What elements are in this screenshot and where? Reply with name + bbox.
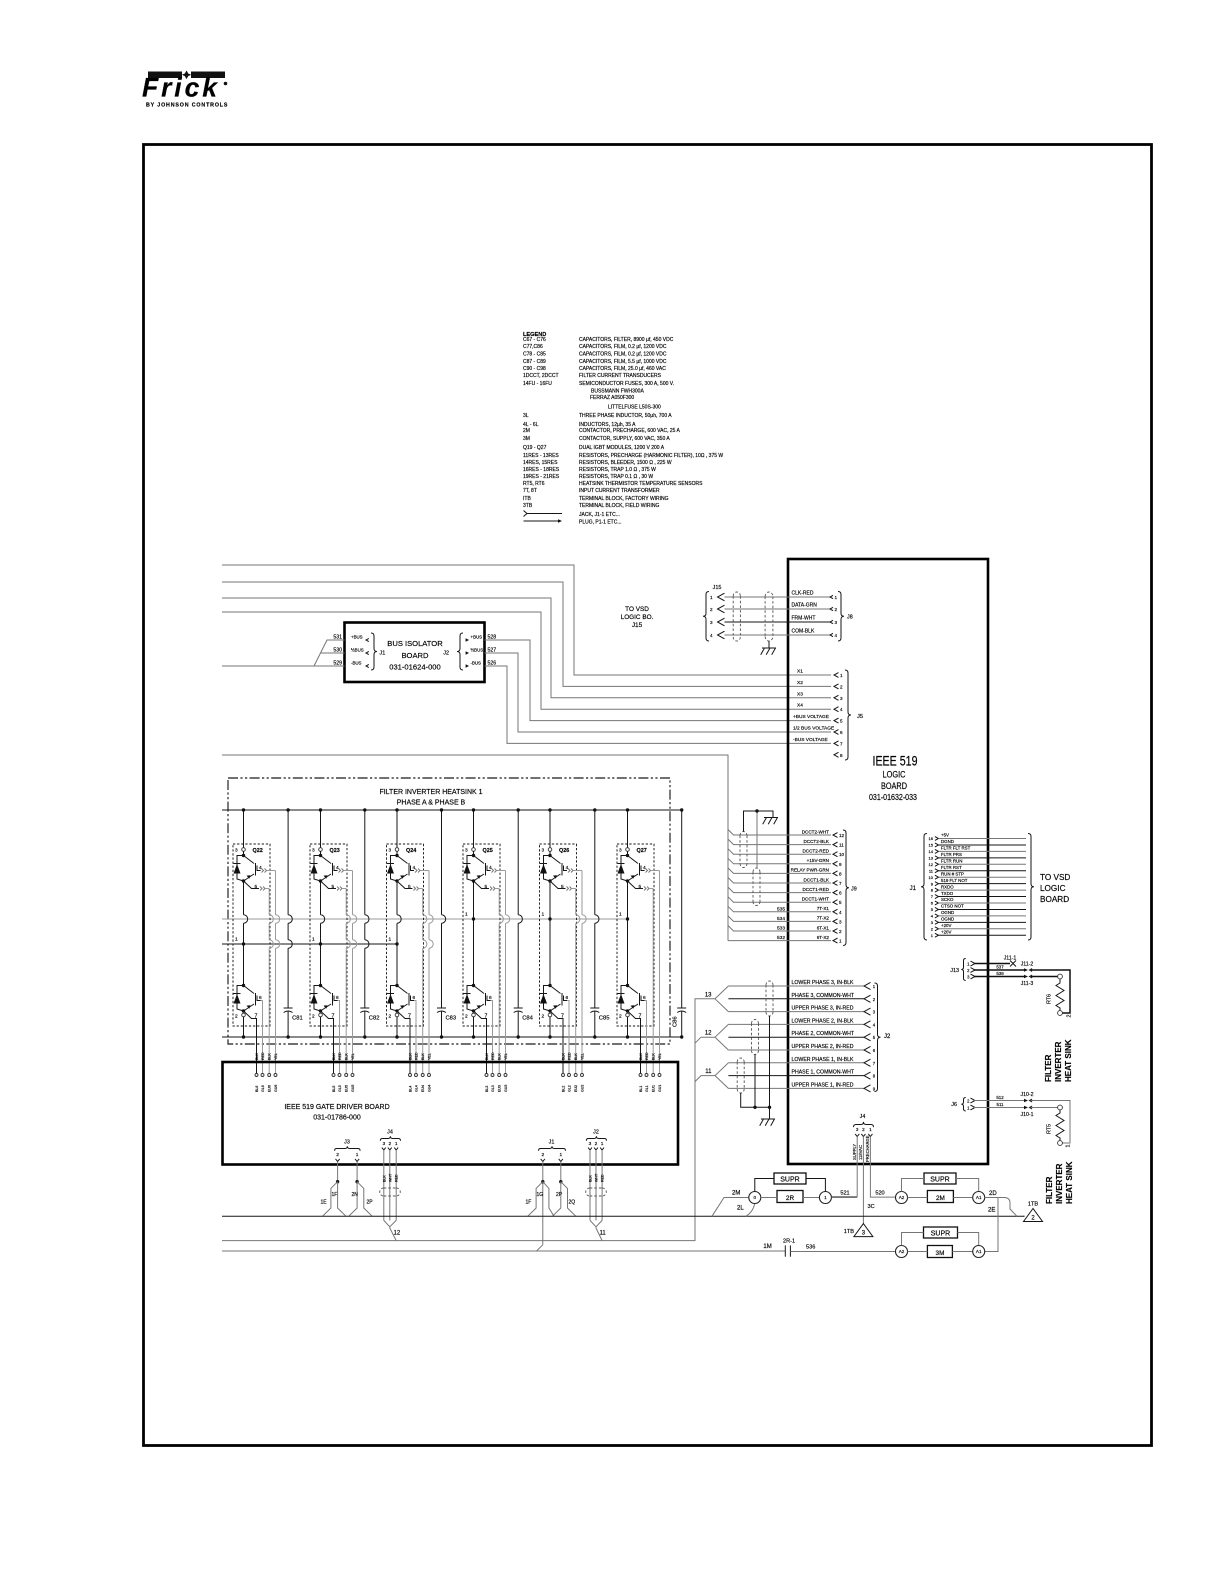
Q22 pin 6 gate wire <box>257 996 261 1001</box>
svg-text:EU1: EU1 <box>652 1085 656 1092</box>
Q25 pin 6 gate wire <box>487 996 491 1001</box>
svg-text:1F: 1F <box>332 1192 338 1198</box>
svg-text:J2: J2 <box>443 651 449 657</box>
svg-text:1: 1 <box>835 595 838 600</box>
svg-text:Q25: Q25 <box>483 848 493 854</box>
svg-text:X1: X1 <box>797 669 803 675</box>
svg-text:11RES - 13RES: 11RES - 13RES <box>523 453 559 459</box>
Q25 emitter junction upper <box>472 879 475 882</box>
Q26 emitter junction upper <box>548 879 551 882</box>
bus isolator J2 pin -BUS <box>466 664 469 667</box>
svg-text:BL1: BL1 <box>639 1086 643 1092</box>
legend jack symbol <box>524 511 563 517</box>
svg-text:7: 7 <box>839 881 842 886</box>
svg-text:531: 531 <box>333 635 342 641</box>
svg-text:GU1: GU1 <box>658 1085 662 1092</box>
svg-text:1G: 1G <box>537 1192 544 1198</box>
wire J9 pin 8 RELAY PWR-GRN <box>728 868 831 874</box>
cable J2 wires drop <box>589 1150 591 1220</box>
svg-text:FILTER: FILTER <box>1044 1054 1053 1082</box>
svg-text:1: 1 <box>619 912 622 918</box>
svg-text:+5V: +5V <box>941 833 949 838</box>
svg-text:2: 2 <box>835 607 838 612</box>
svg-text:C87 - C89: C87 - C89 <box>523 359 546 365</box>
svg-text:C77,C86: C77,C86 <box>523 344 543 350</box>
Q27 collector wire <box>627 810 629 849</box>
svg-text:PHASE 3, COMMON-WHT: PHASE 3, COMMON-WHT <box>792 993 855 999</box>
svg-text:YEL: YEL <box>581 1053 585 1060</box>
svg-text:2: 2 <box>312 1014 315 1020</box>
svg-text:4: 4 <box>835 633 838 638</box>
svg-text:RED: RED <box>601 1174 605 1182</box>
svg-text:15: 15 <box>929 843 934 848</box>
svg-text:PHASE A & PHASE B: PHASE A & PHASE B <box>397 800 466 807</box>
J15 shield ground <box>768 641 770 648</box>
svg-text:A2: A2 <box>899 1195 905 1200</box>
transistor Q24 upper IGBT <box>397 856 409 882</box>
svg-text:3: 3 <box>710 620 713 625</box>
svg-text:4: 4 <box>839 910 842 915</box>
capacitor C82 <box>364 810 366 915</box>
svg-text:RED: RED <box>645 1052 649 1060</box>
Q23 emitter junction upper <box>319 879 322 882</box>
transistor Q25 lower IGBT <box>472 984 475 987</box>
svg-text:RXDO: RXDO <box>941 884 954 889</box>
wire J2 pin 2 PHASE 3, COMMON-WHT <box>728 998 864 1000</box>
contactor 2M terminal A1 <box>973 1192 985 1204</box>
bus isolator board <box>345 623 485 683</box>
svg-text:-BUS: -BUS <box>471 661 482 666</box>
svg-text:4: 4 <box>710 633 713 638</box>
svg-text:3TB: 3TB <box>523 503 533 509</box>
svg-text:PLUG, P1-1 ETC...: PLUG, P1-1 ETC... <box>579 520 622 526</box>
Q26 pin 4 gate wire <box>564 866 568 871</box>
svg-text:DGND: DGND <box>941 839 954 844</box>
phase cable shield 12 <box>752 1019 759 1054</box>
svg-text:3: 3 <box>840 696 843 701</box>
Q22 emitter junction lower <box>242 1009 245 1012</box>
svg-text:Q26: Q26 <box>559 848 569 854</box>
svg-text:INVERTER: INVERTER <box>1054 1041 1063 1082</box>
svg-text:SUPR: SUPR <box>930 1177 949 1184</box>
suppressor SUPR 3M <box>924 1227 958 1238</box>
svg-text:BUS ISOLATOR: BUS ISOLATOR <box>387 639 443 648</box>
IGBT module Q24 box <box>387 844 424 1026</box>
svg-text:CAPACITORS, FILM, 0.2 µf, 1200: CAPACITORS, FILM, 0.2 µf, 1200 VDC <box>579 344 667 350</box>
svg-text:C81: C81 <box>292 1016 303 1022</box>
wire 521 link <box>832 1197 858 1199</box>
svg-text:TO VSD: TO VSD <box>1040 873 1070 882</box>
svg-text:TERMINAL BLOCK, FACTORY WIRING: TERMINAL BLOCK, FACTORY WIRING <box>579 496 669 502</box>
svg-text:11: 11 <box>705 1069 712 1075</box>
transistor Q22 lower IGBT <box>242 984 245 987</box>
svg-text:C78 - C85: C78 - C85 <box>523 352 546 358</box>
svg-text:SCKO: SCKO <box>941 897 954 902</box>
contact 2R terminal 0 <box>749 1192 761 1204</box>
wire 2L line <box>222 1215 1025 1217</box>
svg-text:12: 12 <box>394 1231 401 1237</box>
svg-text:BY JOHNSON CONTROLS: BY JOHNSON CONTROLS <box>146 103 228 109</box>
diode Q27 lower <box>621 986 628 1012</box>
wire phase cable line <box>222 1240 695 1242</box>
svg-text:BLK: BLK <box>652 1053 656 1060</box>
svg-text:GL5: GL5 <box>338 1085 342 1092</box>
svg-text:BLK: BLK <box>255 1053 259 1060</box>
svg-text:FLTR RST: FLTR RST <box>941 865 962 870</box>
svg-text:7T, 8T: 7T, 8T <box>523 488 537 494</box>
Q23 gate driver pin circles <box>332 1074 335 1077</box>
wire X4 long feed <box>222 612 831 709</box>
svg-text:2L: 2L <box>737 1206 744 1212</box>
svg-text:EU5: EU5 <box>345 1085 349 1092</box>
phase bundle 11 merge <box>695 1076 715 1082</box>
svg-text:14FU - 16FU: 14FU - 16FU <box>523 381 552 387</box>
DCCT shields ground <box>764 817 778 819</box>
svg-text:GU2: GU2 <box>581 1085 585 1092</box>
wire 536 <box>790 1251 895 1253</box>
wire 2M branch <box>712 1198 749 1217</box>
svg-text:16RES - 18RES: 16RES - 18RES <box>523 467 560 473</box>
cable 12 bundle point <box>384 1220 396 1240</box>
svg-text:CAPACITORS, FILTER, 8900 µf, 4: CAPACITORS, FILTER, 8900 µf, 450 VDC <box>579 337 674 343</box>
Q27 gate driver pin circles <box>639 1074 642 1077</box>
svg-text:RED: RED <box>338 1052 342 1060</box>
wire J2 pin 5 PHASE 2, COMMON-WHT <box>728 1036 864 1038</box>
wire CLK-RED <box>725 596 831 598</box>
svg-text:1: 1 <box>312 937 315 943</box>
svg-text:4: 4 <box>643 865 646 871</box>
bus isolator J2 pin half BUS <box>466 651 469 654</box>
svg-text:2P: 2P <box>556 1192 563 1198</box>
svg-text:2M: 2M <box>523 428 530 434</box>
legend plug symbol <box>524 520 559 522</box>
wire J9 pin 10 DCCT2-RED <box>728 849 831 855</box>
IGBT module Q23 box <box>310 844 347 1026</box>
svg-text:4: 4 <box>566 865 569 871</box>
svg-text:5: 5 <box>255 884 258 890</box>
svg-text:BLK: BLK <box>409 1053 413 1060</box>
svg-text:J10-2: J10-2 <box>1021 1092 1034 1098</box>
wire fork 2P <box>357 1182 372 1217</box>
svg-text:3: 3 <box>542 848 545 854</box>
svg-text:FILTER: FILTER <box>1045 1176 1054 1204</box>
svg-text:GL4: GL4 <box>415 1085 419 1092</box>
wire 528 to J5 pin5 <box>485 640 832 721</box>
wire DATA-GRN <box>725 608 831 610</box>
svg-text:RED: RED <box>415 1052 419 1060</box>
cable J2 shield <box>586 1188 607 1196</box>
svg-text:6: 6 <box>839 891 842 896</box>
svg-text:3M: 3M <box>936 1250 945 1257</box>
svg-text:LOWER PHASE 2, IN-BLK: LOWER PHASE 2, IN-BLK <box>792 1018 855 1024</box>
svg-text:PHASE 2, COMMON-WHT: PHASE 2, COMMON-WHT <box>792 1031 855 1037</box>
wire fork 2P right <box>553 1182 561 1217</box>
wire J2 pin 8 PHASE 1, COMMON-WHT <box>728 1075 864 1077</box>
phase bundle chevron 13 <box>715 986 728 1012</box>
svg-text:3: 3 <box>835 620 838 625</box>
Q25 collector wire <box>473 810 475 849</box>
svg-text:EU4: EU4 <box>421 1085 425 1092</box>
wire J9 pin 4 7T-X1 <box>728 906 831 912</box>
wire fork 1F <box>338 1182 346 1217</box>
svg-text:+BUS: +BUS <box>471 635 483 640</box>
svg-text:DUAL IGBT MODULES, 1200 V 200: DUAL IGBT MODULES, 1200 V 200 A <box>579 445 665 451</box>
svg-text:CTSO NOT: CTSO NOT <box>941 904 964 909</box>
svg-text:RED: RED <box>395 1174 399 1182</box>
suppressor SUPR 2R <box>774 1173 806 1184</box>
svg-text:J11-3: J11-3 <box>1021 981 1034 987</box>
svg-text:1/2 BUS VOLTAGE: 1/2 BUS VOLTAGE <box>793 726 834 732</box>
Q22 gate driver pin circles <box>255 1074 258 1077</box>
svg-text:5: 5 <box>408 884 411 890</box>
svg-text:C67 - C76: C67 - C76 <box>523 337 546 343</box>
svg-text:+20V: +20V <box>941 929 951 934</box>
Q22 collector wire <box>243 810 245 849</box>
svg-text:INPUT CURRENT TRANSFORMER: INPUT CURRENT TRANSFORMER <box>579 488 660 494</box>
diode Q24 upper <box>391 856 398 882</box>
svg-text:YEL: YEL <box>428 1053 432 1060</box>
Q24 collector wire <box>396 810 398 849</box>
svg-text:OGND: OGND <box>941 917 954 922</box>
svg-text:BLK: BLK <box>382 1175 386 1182</box>
svg-text:2: 2 <box>235 1014 238 1020</box>
svg-text:2M: 2M <box>732 1191 740 1197</box>
svg-text:6T-X2: 6T-X2 <box>817 935 830 940</box>
Q27 main vertical <box>627 881 629 986</box>
diode Q23 lower <box>314 986 321 1012</box>
svg-text:11: 11 <box>839 843 844 848</box>
svg-text:J13: J13 <box>950 968 959 974</box>
svg-text:1F: 1F <box>526 1200 532 1206</box>
wire J9 pin 7 DCCT1-BLK <box>728 878 831 884</box>
svg-text:3M: 3M <box>523 436 530 442</box>
svg-text:534: 534 <box>777 916 785 922</box>
svg-text:RESISTORS, TRAP 0.1 Ω , 30 W: RESISTORS, TRAP 0.1 Ω , 30 W <box>579 474 653 480</box>
Q22 emitter junction upper <box>242 879 245 882</box>
capacitor C81 <box>287 810 289 915</box>
svg-text:UPPER PHASE 3, IN-RED: UPPER PHASE 3, IN-RED <box>792 1006 854 1012</box>
wire J11-2 to RT6 bottom <box>1031 970 1070 1013</box>
IGBT module Q27 box <box>617 844 654 1026</box>
svg-text:532: 532 <box>777 935 785 941</box>
Q23 pin 6 gate wire <box>334 996 338 1001</box>
svg-text:EU3: EU3 <box>498 1085 502 1092</box>
svg-text:10: 10 <box>929 875 934 880</box>
wire J1-2 drop <box>542 1162 544 1245</box>
wire 530 branch <box>321 652 345 654</box>
svg-text:A1: A1 <box>976 1249 982 1254</box>
svg-text:C90 - C98: C90 - C98 <box>523 366 546 372</box>
svg-text:X4: X4 <box>797 703 803 709</box>
J15 cable shield 1 <box>733 592 740 641</box>
svg-text:3L: 3L <box>523 413 529 419</box>
svg-text:CAPACITORS, FILM, 5.5 µf, 1000: CAPACITORS, FILM, 5.5 µf, 1000 VDC <box>579 359 667 365</box>
svg-text:2D: 2D <box>989 1191 997 1197</box>
svg-text:DCCT1-BLK: DCCT1-BLK <box>803 877 829 882</box>
svg-text:536: 536 <box>806 1245 815 1251</box>
Q24 pin 6 gate wire <box>411 996 415 1001</box>
Q23 main vertical <box>320 881 322 986</box>
svg-text:HEAT SINK: HEAT SINK <box>1064 1039 1073 1082</box>
phase shields ground <box>761 1118 775 1120</box>
diode Q27 upper <box>621 856 628 882</box>
wire J10-1 to RT5 top <box>1031 1107 1058 1109</box>
svg-text:RUN # STP: RUN # STP <box>941 871 964 876</box>
svg-text:10: 10 <box>839 852 845 857</box>
svg-text:UPPER PHASE 2, IN-RED: UPPER PHASE 2, IN-RED <box>792 1044 854 1050</box>
Q22 main vertical <box>243 881 245 986</box>
svg-text:YEL: YEL <box>504 1053 508 1060</box>
svg-text:CONTACTOR, PRECHARGE, 600 VAC,: CONTACTOR, PRECHARGE, 600 VAC, 25 A <box>579 428 681 434</box>
wire fork 1E <box>323 1182 338 1217</box>
svg-text:LOGIC: LOGIC <box>1040 884 1066 893</box>
wire 2L curve <box>746 1204 755 1217</box>
Q27 emitter junction lower <box>626 1009 629 1012</box>
svg-text:THREE PHASE INDUCTOR, 50µh, 70: THREE PHASE INDUCTOR, 50µh, 700 A <box>579 413 672 419</box>
svg-text:BLK: BLK <box>589 1175 593 1182</box>
wire 512 to J10-2 <box>974 1100 1024 1102</box>
svg-text:TERMINAL BLOCK, FIELD WIRING: TERMINAL BLOCK, FIELD WIRING <box>579 503 659 509</box>
diode Q23 upper <box>314 856 321 882</box>
svg-text:½BUS: ½BUS <box>471 648 484 653</box>
Q24 gate driver pin circles <box>409 1074 412 1077</box>
svg-text:7T-X1: 7T-X1 <box>817 906 830 911</box>
svg-text:3: 3 <box>619 848 622 854</box>
svg-text:0: 0 <box>754 1195 757 1200</box>
svg-text:6T-X1: 6T-X1 <box>817 925 830 930</box>
svg-text:CONTACTOR, SUPPLY, 600 VAC, 35: CONTACTOR, SUPPLY, 600 VAC, 350 A <box>579 436 670 442</box>
DCCT shield ground bar <box>744 811 774 832</box>
svg-text:538: 538 <box>996 971 1004 976</box>
IGBT module Q26 box <box>540 844 577 1026</box>
svg-text:UPPER PHASE 1, IN-RED: UPPER PHASE 1, IN-RED <box>792 1082 854 1088</box>
phase cable shield 11 <box>737 1058 744 1093</box>
svg-text:Q19 - Q27: Q19 - Q27 <box>523 445 547 451</box>
svg-text:IEEE 519: IEEE 519 <box>873 754 918 769</box>
Q26 pin 6 gate wire <box>564 996 568 1001</box>
svg-text:+BUS VOLTAGE: +BUS VOLTAGE <box>793 714 829 720</box>
svg-text:BL6: BL6 <box>255 1086 259 1092</box>
svg-text:031-01632-033: 031-01632-033 <box>869 793 917 802</box>
svg-text:RELAY PWR-GRN: RELAY PWR-GRN <box>791 868 829 873</box>
svg-text:COM-BLK: COM-BLK <box>792 629 815 635</box>
svg-text:1: 1 <box>840 673 843 678</box>
svg-text:X3: X3 <box>797 691 803 697</box>
svg-text:RESISTORS, PRECHARGE (HARMONIC: RESISTORS, PRECHARGE (HARMONIC FILTER), … <box>579 453 723 459</box>
Q22 pin 4 gate wire <box>257 866 261 871</box>
svg-text:1: 1 <box>824 1195 827 1200</box>
svg-text:1: 1 <box>542 912 545 918</box>
Q27 pin 6 gate wire <box>641 996 645 1001</box>
svg-text:C84: C84 <box>522 1016 533 1022</box>
svg-text:512: 512 <box>996 1095 1004 1100</box>
capacitor C84 <box>517 810 519 915</box>
svg-text:J5: J5 <box>857 714 863 720</box>
Frick logo <box>142 71 228 109</box>
svg-text:J2: J2 <box>593 1130 599 1136</box>
svg-text:14RES, 15RES: 14RES, 15RES <box>523 460 558 466</box>
svg-text:FILTER INVERTER HEATSINK 1: FILTER INVERTER HEATSINK 1 <box>379 789 482 796</box>
svg-text:FRM-WHT: FRM-WHT <box>792 616 816 622</box>
svg-text:RED: RED <box>568 1052 572 1060</box>
svg-text:FLTR FLT RST: FLTR FLT RST <box>941 846 971 851</box>
svg-text:2: 2 <box>619 1014 622 1020</box>
transistor Q24 lower IGBT <box>395 984 398 987</box>
svg-text:FLTR RUN: FLTR RUN <box>941 859 962 864</box>
contact 2R terminal 1 <box>819 1192 831 1204</box>
svg-text:RT6: RT6 <box>1047 994 1053 1004</box>
svg-text:1: 1 <box>395 1141 398 1147</box>
svg-text:J15: J15 <box>632 622 643 629</box>
svg-text:13: 13 <box>929 855 934 860</box>
svg-text:14: 14 <box>929 849 934 854</box>
svg-text:13: 13 <box>705 992 712 998</box>
svg-text:BL2: BL2 <box>562 1086 566 1092</box>
svg-text:2: 2 <box>542 1014 545 1020</box>
svg-text:5: 5 <box>485 884 488 890</box>
transistor Q27 lower IGBT <box>626 984 629 987</box>
wire DCCT cable trunk feed <box>222 755 728 941</box>
svg-text:J6: J6 <box>951 1102 957 1108</box>
capacitor C86 <box>681 810 683 1008</box>
svg-text:J4: J4 <box>387 1130 393 1136</box>
svg-text:GU6: GU6 <box>274 1085 278 1092</box>
svg-text:1: 1 <box>356 1152 359 1158</box>
svg-text:C86: C86 <box>673 1016 679 1027</box>
Q24 pin 4 gate wire <box>411 866 415 871</box>
filter inverter heatsink 1 box <box>228 778 670 1044</box>
connector J9 brace <box>843 830 849 946</box>
Q26 gate driver pin circles <box>562 1074 565 1077</box>
svg-text:EU6: EU6 <box>268 1085 272 1092</box>
Q27 emitter junction upper <box>626 879 629 882</box>
svg-text:Q23: Q23 <box>330 848 340 854</box>
svg-text:BOARD: BOARD <box>1040 895 1069 904</box>
svg-text:PRECHARGE: PRECHARGE <box>865 1135 870 1162</box>
svg-text:031-01786-000: 031-01786-000 <box>313 1115 361 1122</box>
transistor Q27 upper IGBT <box>628 856 640 882</box>
svg-text:530: 530 <box>333 648 342 654</box>
wire 538 to J11-3 <box>974 976 1024 978</box>
svg-text:J11-2: J11-2 <box>1021 962 1034 968</box>
svg-text:519 FLT NOT: 519 FLT NOT <box>941 878 968 883</box>
wire 527 to J5 pin6 <box>485 653 832 732</box>
svg-text:3: 3 <box>839 919 842 924</box>
svg-text:X2: X2 <box>797 680 803 686</box>
svg-text:1DCCT, 2DCCT: 1DCCT, 2DCCT <box>523 373 559 379</box>
svg-text:1: 1 <box>839 939 842 944</box>
svg-text:RED: RED <box>491 1052 495 1060</box>
svg-text:BL4: BL4 <box>409 1086 413 1092</box>
svg-text:521: 521 <box>840 1190 849 1196</box>
svg-text:9: 9 <box>839 862 842 867</box>
svg-text:1TB: 1TB <box>844 1229 855 1235</box>
svg-text:J9: J9 <box>851 887 857 893</box>
diode Q25 lower <box>467 986 474 1012</box>
wire J9 pin 9 +15V-GRN <box>728 858 831 864</box>
wire J1-1 drop <box>560 1162 562 1182</box>
wire J10-2 to RT5 bottom <box>1031 1101 1070 1144</box>
svg-text:YEL: YEL <box>658 1053 662 1060</box>
svg-text:C85: C85 <box>599 1016 610 1022</box>
svg-text:DCCT2-WHT: DCCT2-WHT <box>802 829 829 834</box>
Q24 main vertical <box>396 881 398 986</box>
wire J2 pin 9 UPPER PHASE 1, IN-RED <box>728 1087 864 1089</box>
wire 520 precharge <box>870 1137 895 1198</box>
svg-text:J15: J15 <box>713 585 722 591</box>
svg-text:031-01624-000: 031-01624-000 <box>389 663 441 672</box>
svg-text:A2: A2 <box>899 1249 905 1254</box>
